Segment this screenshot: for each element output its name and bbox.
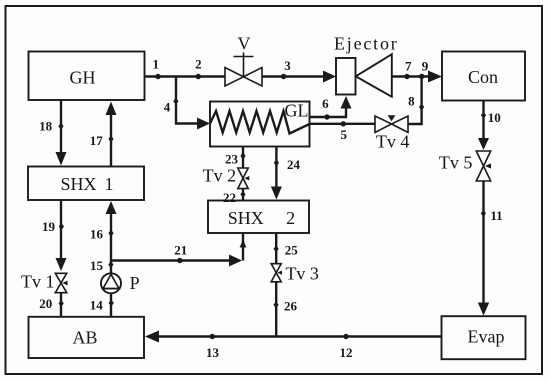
node 10 [481, 110, 501, 125]
wire GH to valve V [145, 75, 226, 77]
svg-text:7: 7 [405, 59, 412, 74]
svg-text:18: 18 [39, 119, 53, 134]
wire SHX 1 to Tv 1 line 19 [60, 200, 62, 258]
wire Tv 5 to Evap [482, 181, 484, 303]
node 5 [340, 121, 347, 142]
node 26 [273, 299, 297, 314]
wire GL vapor to ejector bottom [310, 107, 347, 117]
wire Tv 3 to bottom line [275, 282, 277, 337]
node 19 [42, 219, 64, 234]
svg-text:Tv 4: Tv 4 [376, 131, 410, 151]
ejector U1 [334, 34, 399, 97]
svg-text:25: 25 [285, 242, 299, 257]
absorber AB [29, 317, 145, 358]
wire riser into SHX 1 bottom line 16 [110, 214, 112, 261]
wire branch node 4 to GL inlet [176, 77, 197, 124]
valve Tv 2 [203, 165, 250, 188]
pump P [101, 273, 140, 293]
node 9 [419, 59, 429, 80]
svg-text:23: 23 [225, 152, 239, 167]
svg-text:8: 8 [408, 94, 415, 109]
svg-text:Con: Con [468, 67, 498, 87]
GL coil [210, 111, 310, 134]
wire pump suction from AB line 14 [110, 293, 112, 317]
svg-text:Evap: Evap [468, 326, 505, 346]
wire pump branch to SHX 2 line 21 [111, 259, 229, 261]
node 6 [322, 96, 330, 120]
node 25 [274, 242, 299, 257]
svg-text:11: 11 [490, 208, 502, 223]
svg-text:20: 20 [39, 296, 52, 311]
node 8 [408, 94, 424, 111]
condenser Con [442, 52, 525, 101]
heat exchanger SHX 1 [28, 167, 144, 201]
node 15 [90, 258, 114, 273]
svg-text:Tv 3: Tv 3 [285, 264, 319, 284]
svg-text:16: 16 [90, 227, 104, 242]
svg-text:P: P [130, 273, 140, 293]
svg-text:5: 5 [340, 127, 347, 142]
svg-text:13: 13 [206, 345, 220, 360]
generator GH [29, 52, 145, 101]
svg-text:1: 1 [153, 56, 160, 71]
node 20 [39, 296, 64, 311]
wire Tv 4 to node 9 [408, 77, 422, 125]
svg-text:14: 14 [90, 297, 104, 312]
wire valve V to ejector inlet [262, 75, 324, 77]
node 3 [281, 58, 291, 79]
svg-text:15: 15 [90, 258, 104, 273]
valve V [225, 34, 262, 87]
wire ejector outlet to Con [392, 75, 428, 77]
svg-text:AB: AB [72, 328, 97, 348]
wire SHX 1 to GH line 17 [110, 115, 112, 167]
svg-text:21: 21 [174, 243, 187, 258]
node 21 [174, 243, 187, 264]
svg-text:9: 9 [422, 59, 429, 74]
svg-text:19: 19 [42, 219, 56, 234]
svg-text:GH: GH [70, 68, 96, 88]
svg-text:2: 2 [286, 208, 295, 228]
svg-text:V: V [238, 34, 251, 54]
heat exchanger SHX 2 [208, 201, 309, 234]
svg-text:4: 4 [164, 100, 171, 115]
node 17 [90, 133, 114, 148]
wire GL to SHX 2 line 24 [275, 147, 277, 187]
svg-text:Ejector: Ejector [334, 34, 399, 54]
svg-text:1: 1 [105, 174, 114, 194]
valve Tv 4 [375, 115, 409, 151]
svg-text:10: 10 [488, 110, 501, 125]
wire Tv 2 to SHX 2 [242, 189, 244, 201]
node 14 [90, 297, 114, 312]
wire GH to SHX 1 line 18 [60, 101, 62, 153]
node 22 [223, 190, 246, 205]
node 2 [195, 57, 202, 80]
svg-text:Tv 5: Tv 5 [439, 153, 473, 173]
node 7 [404, 59, 412, 80]
svg-text:Tv 2: Tv 2 [203, 165, 237, 185]
heat exchanger GL [210, 100, 310, 146]
node 16 [90, 227, 114, 242]
node 23 [225, 152, 246, 167]
svg-text:SHX: SHX [60, 174, 96, 194]
valve Tv 5 [439, 151, 491, 181]
svg-text:2: 2 [195, 57, 202, 72]
svg-text:SHX: SHX [228, 208, 264, 228]
wire SHX 2 to Tv 3 [275, 233, 277, 264]
wire riser into SHX 2 bottom [242, 233, 244, 261]
svg-text:Tv 1: Tv 1 [21, 272, 55, 292]
node 12 [340, 334, 353, 360]
svg-text:17: 17 [90, 133, 104, 148]
wire Tv 1 to AB [60, 293, 62, 317]
wire GL to Tv 2 [242, 147, 244, 169]
wire node 15 to pump [110, 261, 112, 274]
evaporator Evap [442, 316, 526, 359]
node 11 [481, 208, 503, 223]
svg-text:12: 12 [340, 345, 353, 360]
node 18 [39, 119, 64, 134]
wire Con to Tv 5 [482, 101, 484, 139]
node 24 [274, 157, 301, 172]
node 4 [164, 98, 179, 115]
svg-text:6: 6 [322, 96, 329, 111]
wire Evap to AB [159, 335, 442, 337]
wire GL liquid to Tv 4 [310, 123, 376, 125]
svg-text:24: 24 [287, 157, 301, 172]
svg-text:GL: GL [285, 100, 309, 120]
node 13 [206, 334, 220, 360]
svg-text:3: 3 [284, 58, 291, 73]
svg-text:22: 22 [223, 190, 236, 205]
valve Tv 3 [271, 264, 319, 284]
valve Tv 1 [21, 272, 68, 293]
svg-text:26: 26 [284, 299, 298, 314]
node 1 [153, 56, 161, 79]
